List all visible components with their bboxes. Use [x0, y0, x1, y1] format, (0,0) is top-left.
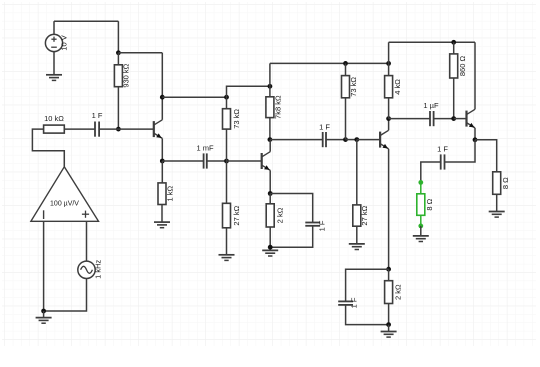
svg-text:73 kΩ: 73 kΩ	[349, 77, 358, 97]
node R10 rail tap	[386, 61, 391, 66]
node input ground junction	[41, 309, 46, 314]
wire E1 plus input	[86, 221, 88, 261]
wire E1 minus input	[43, 221, 45, 311]
resistor R5 7k8	[266, 86, 283, 139]
node Q4 base junction	[451, 116, 456, 121]
resistor R7 2k	[266, 194, 284, 248]
svg-text:2 kΩ: 2 kΩ	[276, 207, 285, 223]
svg-text:1 F: 1 F	[437, 144, 448, 153]
wire bias riser	[269, 63, 271, 86]
wire V1 top lead	[53, 21, 55, 34]
wire Q1 collector riser	[161, 53, 163, 120]
wire Q3 collector to C5	[389, 118, 430, 120]
node Q3 ground junction	[386, 322, 391, 327]
transistor Q3	[380, 130, 389, 149]
wire V1 bottom lead	[53, 52, 55, 75]
svg-text:1 µF: 1 µF	[423, 101, 439, 110]
wire C2 to Q2 base node	[207, 160, 227, 162]
wire y97 collector to R4	[162, 96, 226, 98]
resistor R9 27k	[353, 140, 369, 244]
wire C1 to Q1 base	[99, 128, 154, 130]
svg-text:8 Ω: 8 Ω	[501, 177, 510, 189]
svg-text:1 kΩ: 1 kΩ	[165, 186, 174, 202]
node R4 top	[224, 95, 229, 100]
svg-text:8 Ω: 8 Ω	[425, 198, 434, 210]
wire load ground stub	[420, 226, 422, 236]
svg-text:10 V: 10 V	[60, 35, 69, 50]
node Q3 collector junction	[386, 116, 391, 121]
transistor Q1	[154, 120, 163, 139]
svg-text:930 kΩ: 930 kΩ	[122, 63, 131, 87]
node R8 bottom junction	[343, 137, 348, 142]
node Q1 collector tap	[160, 95, 165, 100]
wire emitter to C6	[346, 269, 389, 301]
node R9 top junction	[354, 137, 359, 142]
svg-text:1 F: 1 F	[319, 122, 330, 131]
node load top terminal	[418, 180, 423, 185]
wire Q3 emitter drop	[388, 149, 390, 269]
wire Q2 emitter to C3	[270, 194, 313, 223]
svg-text:1 mF: 1 mF	[196, 143, 214, 152]
node R5 top	[268, 84, 273, 89]
capacitor C6 1F	[338, 297, 358, 308]
ac source V2 1kHz	[78, 259, 103, 278]
wire base node segment	[346, 139, 357, 141]
resistor R10 4k	[385, 63, 402, 118]
resistor Rload 8ohm highlighted	[417, 182, 434, 226]
wire ground stub	[43, 311, 45, 317]
wire top right rail	[389, 41, 475, 43]
svg-text:1 F: 1 F	[350, 297, 359, 308]
resistor R8 73k	[342, 63, 359, 139]
wire bias jog	[227, 86, 270, 97]
transistor Q2	[262, 152, 271, 171]
ground Q3 stage	[381, 332, 397, 338]
wire Q2 emitter drop	[269, 170, 271, 193]
resistor R1 930k	[114, 53, 130, 129]
svg-text:1 kHz: 1 kHz	[94, 259, 103, 278]
wire C6 to bottom node	[346, 305, 389, 325]
capacitor C7 1F output	[437, 144, 448, 169]
wire Q4 emitter drop	[474, 128, 476, 140]
wire Q4 collector riser	[474, 42, 476, 109]
wire emitter to R13	[475, 140, 497, 172]
node Q1 base junction	[116, 127, 121, 132]
svg-text:10 kΩ: 10 kΩ	[44, 114, 64, 123]
svg-text:2 kΩ: 2 kΩ	[393, 284, 402, 300]
ground R6	[219, 255, 235, 261]
node Q2 ground junction	[268, 245, 273, 250]
ground R3	[154, 222, 170, 228]
svg-text:1 F: 1 F	[92, 111, 103, 120]
ground Q2 stage	[262, 250, 278, 256]
wire R2 to C1	[64, 128, 95, 130]
capacitor C4 1F coupling	[319, 122, 330, 147]
resistor R13 8ohm	[493, 172, 510, 212]
wire op-amp output to R2	[32, 129, 64, 167]
node supply junction	[116, 50, 121, 55]
wire C7 to load	[421, 162, 441, 182]
svg-text:7k8 kΩ: 7k8 kΩ	[274, 95, 283, 119]
wire rail riser	[388, 42, 390, 63]
node R11 top	[451, 40, 456, 45]
resistor R2 10k	[44, 114, 65, 133]
capacitor C3 1F bypass	[305, 220, 326, 231]
node Q3 emitter junction	[386, 267, 391, 272]
wire supply drop	[117, 21, 119, 53]
wire Q3 base	[357, 139, 380, 141]
resistor R11 860	[450, 42, 467, 118]
capacitor C5 1uF	[423, 101, 439, 126]
node load bottom terminal	[418, 224, 423, 229]
capacitor C1 1F input	[92, 111, 103, 137]
transistor Q4	[467, 109, 476, 128]
resistor R3 1k	[158, 161, 174, 222]
resistor R6 27k	[223, 161, 241, 255]
wire top rail	[54, 20, 118, 22]
svg-text:860 Ω: 860 Ω	[458, 56, 467, 77]
node Q4 emitter	[473, 137, 478, 142]
op-amp E1 100uV/V	[31, 167, 99, 222]
svg-text:27 kΩ: 27 kΩ	[360, 205, 369, 225]
ground load	[413, 236, 429, 242]
svg-text:27 kΩ: 27 kΩ	[232, 205, 241, 225]
wire ground stub Q3	[388, 325, 390, 332]
wire V2 to ground node	[44, 278, 87, 311]
capacitor C2 1mF	[196, 143, 214, 168]
wire Q1 emitter to C2	[162, 160, 203, 162]
node Q2 collector junction	[268, 137, 273, 142]
ground R13	[489, 212, 505, 218]
svg-text:100 µV/V: 100 µV/V	[50, 201, 79, 208]
wire Q3 collector riser	[388, 119, 390, 131]
ground R9	[349, 244, 365, 250]
wire C4 to Q3 base node	[326, 139, 346, 141]
wire Q4 base	[454, 118, 467, 120]
node R8 rail tap	[343, 61, 348, 66]
wire C3 to ground node	[270, 226, 313, 247]
resistor R4 73k	[223, 97, 241, 161]
wire Q2 collector riser	[269, 140, 271, 152]
ground input	[36, 318, 52, 324]
node Q1 emitter	[160, 159, 165, 164]
ground V1	[46, 75, 62, 81]
svg-text:1 F: 1 F	[318, 220, 327, 231]
wire Q2 base	[227, 160, 262, 162]
svg-text:73 kΩ: 73 kΩ	[232, 109, 241, 129]
wire Q2 collector to C4	[270, 139, 323, 141]
resistor R12 2k	[385, 269, 403, 324]
wire C5 to Q4 base node	[434, 118, 454, 120]
wire mid rail	[270, 62, 389, 64]
voltage source V1 10V	[45, 34, 68, 51]
svg-text:4 kΩ: 4 kΩ	[393, 79, 402, 95]
wire supply to Q1 collector	[118, 52, 162, 54]
wire Q1 emitter drop	[161, 138, 163, 161]
node Q2 base junction	[224, 159, 229, 164]
node Q2 emitter	[268, 191, 273, 196]
wire emitter down to C7	[445, 140, 476, 162]
